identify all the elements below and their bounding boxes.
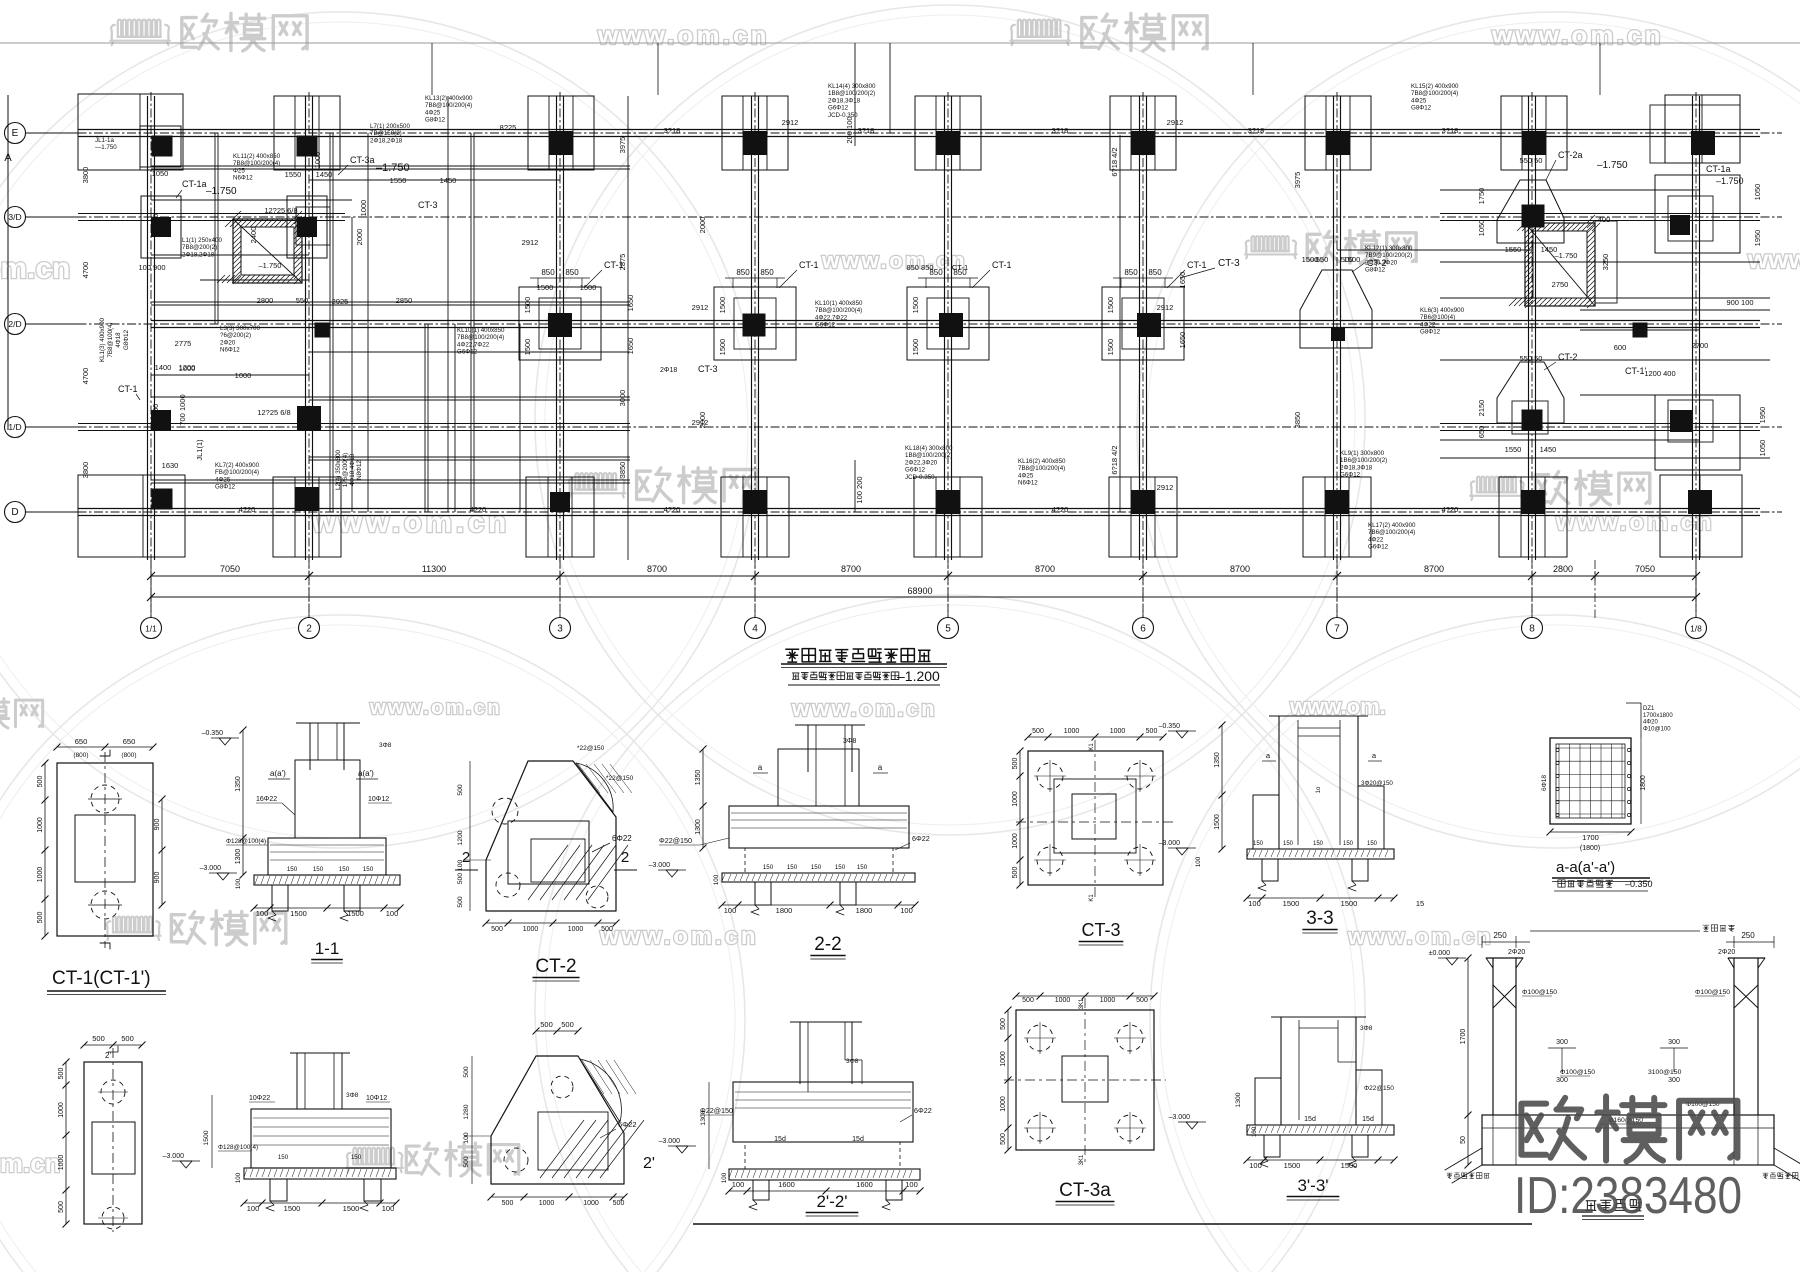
svg-text:3Φ8: 3Φ8 [1360, 1025, 1373, 1032]
svg-text:11300: 11300 [422, 564, 446, 574]
svg-text:1500: 1500 [537, 283, 554, 292]
svg-text:G8Φ12: G8Φ12 [123, 329, 130, 350]
svg-text:1000: 1000 [1064, 728, 1080, 735]
svg-text:3?18: 3?18 [1442, 126, 1459, 135]
svg-text:2Φ22,3Φ20: 2Φ22,3Φ20 [905, 459, 938, 466]
svg-text:1000: 1000 [1100, 997, 1116, 1004]
svg-text:*22@150: *22@150 [606, 775, 634, 782]
svg-text:5: 5 [945, 624, 951, 635]
svg-text:300: 300 [1668, 1039, 1680, 1046]
svg-text:8: 8 [1529, 624, 1535, 635]
svg-text:KL15(2) 400x900: KL15(2) 400x900 [1411, 83, 1459, 90]
svg-text:–1.750: –1.750 [376, 162, 410, 174]
svg-text:CT-1a: CT-1a [1706, 164, 1731, 174]
svg-text:8700: 8700 [1424, 564, 1444, 574]
svg-text:4?20: 4?20 [239, 505, 256, 514]
svg-text:(1800): (1800) [1580, 845, 1600, 852]
svg-text:1550: 1550 [1505, 245, 1522, 254]
svg-text:1600: 1600 [856, 1180, 873, 1189]
svg-text:4: 4 [752, 624, 758, 635]
svg-text:15: 15 [1416, 899, 1424, 908]
svg-text:2800: 2800 [257, 296, 274, 305]
svg-text:KL10(1) 400x850: KL10(1) 400x850 [815, 300, 863, 307]
svg-text:200 100: 200 100 [845, 116, 854, 143]
svg-text:3800: 3800 [81, 167, 90, 184]
svg-text:1500: 1500 [523, 297, 532, 314]
svg-text:–1.750: –1.750 [1597, 160, 1628, 171]
svg-text:2000: 2000 [698, 217, 707, 234]
svg-text:JL1(1): JL1(1) [195, 439, 204, 461]
svg-text:1000: 1000 [359, 200, 368, 217]
svg-text:500: 500 [1022, 997, 1034, 1004]
svg-text:1800: 1800 [776, 906, 793, 915]
svg-text:1350: 1350 [235, 776, 242, 792]
svg-text:a: a [878, 763, 883, 772]
svg-text:550 50: 550 50 [1520, 156, 1543, 165]
svg-text:CT-2a: CT-2a [1558, 150, 1583, 160]
svg-text:1400: 1400 [155, 363, 172, 372]
svg-text:550 50: 550 50 [1520, 354, 1543, 363]
svg-text:2: 2 [621, 849, 629, 866]
svg-text:2912: 2912 [1157, 303, 1174, 312]
svg-text:CT-1(CT-1'): CT-1(CT-1') [52, 968, 151, 989]
svg-text:2875: 2875 [618, 254, 627, 271]
svg-text:1000: 1000 [1012, 833, 1019, 849]
svg-text:4?20: 4?20 [1052, 505, 1069, 514]
svg-text:1000: 1000 [583, 1200, 599, 1207]
svg-text:–3.000: –3.000 [1159, 840, 1181, 847]
svg-text:500: 500 [457, 784, 464, 796]
svg-text:3975: 3975 [1293, 172, 1302, 189]
svg-text:1/D: 1/D [8, 422, 21, 432]
svg-text:Φ25: Φ25 [233, 167, 245, 174]
svg-text:*22@150: *22@150 [577, 745, 605, 752]
svg-text:1750: 1750 [1477, 188, 1486, 205]
svg-text:?6@200(2): ?6@200(2) [220, 332, 251, 339]
svg-text:1700: 1700 [1582, 833, 1599, 842]
svg-text:1500: 1500 [1284, 1161, 1301, 1170]
svg-text:DZ1: DZ1 [1643, 706, 1655, 712]
svg-text:4Φ25: 4Φ25 [1018, 472, 1034, 479]
svg-text:100: 100 [1251, 1126, 1258, 1137]
svg-text:150: 150 [787, 864, 798, 871]
svg-text:2400: 2400 [249, 227, 258, 244]
svg-text:www.om.cn: www.om.cn [369, 697, 502, 719]
svg-text:500: 500 [121, 1034, 134, 1043]
svg-text:3975: 3975 [618, 137, 627, 154]
svg-text:G8Φ12: G8Φ12 [425, 117, 446, 124]
svg-text:7B8@100/200(4): 7B8@100/200(4) [457, 334, 504, 341]
svg-text:1500: 1500 [347, 909, 364, 918]
svg-text:G8Φ12: G8Φ12 [1420, 329, 1441, 336]
svg-text:500: 500 [457, 896, 464, 908]
svg-text:10Φ12: 10Φ12 [366, 1095, 387, 1102]
svg-text:650: 650 [1477, 426, 1486, 439]
svg-text:G8Φ12: G8Φ12 [1411, 105, 1432, 112]
svg-text:1000: 1000 [568, 926, 584, 933]
svg-text:CT-1': CT-1' [1625, 366, 1647, 376]
svg-text:150: 150 [287, 866, 298, 873]
svg-text:2150: 2150 [1477, 400, 1486, 417]
svg-text:2-2: 2-2 [814, 934, 841, 955]
svg-text:CT-2: CT-2 [535, 956, 576, 977]
svg-text:2912: 2912 [1167, 118, 1184, 127]
svg-text:1280: 1280 [463, 1104, 470, 1119]
svg-text:500: 500 [1012, 758, 1019, 770]
svg-text:(800): (800) [121, 752, 136, 759]
svg-text:1600: 1600 [778, 1180, 795, 1189]
svg-text:3: 3 [557, 624, 563, 635]
svg-text:500: 500 [92, 1034, 105, 1043]
svg-text:1B8@100/200(2): 1B8@100/200(2) [828, 90, 875, 97]
svg-text:3800: 3800 [81, 462, 90, 479]
svg-text:7B8@100(4): 7B8@100(4) [107, 322, 114, 357]
svg-text:1550: 1550 [390, 176, 407, 185]
svg-text:7B8@100/200(4): 7B8@100/200(4) [425, 102, 472, 109]
svg-text:1?6@200(4): 1?6@200(4) [342, 453, 349, 488]
svg-text:1500: 1500 [1302, 255, 1319, 264]
svg-text:www.om.cn: www.om.cn [599, 923, 758, 950]
svg-text:1500: 1500 [1341, 1161, 1358, 1170]
svg-text:CT-3: CT-3 [698, 364, 718, 374]
svg-text:2'-2': 2'-2' [816, 1192, 847, 1211]
svg-text:3/D: 3/D [8, 212, 21, 222]
svg-text:—1.750: —1.750 [95, 144, 117, 151]
svg-text:1450: 1450 [1540, 445, 1557, 454]
svg-text:100: 100 [382, 1204, 395, 1213]
svg-text:L1(1) 250x400: L1(1) 250x400 [182, 237, 222, 244]
svg-text:1700: 1700 [1460, 1029, 1467, 1045]
svg-text:100: 100 [732, 1180, 745, 1189]
svg-text:100: 100 [724, 906, 737, 915]
svg-text:500: 500 [1000, 1018, 1007, 1030]
svg-text:1500: 1500 [1283, 899, 1300, 908]
svg-text:650: 650 [75, 737, 88, 746]
svg-text:1350: 1350 [695, 770, 702, 786]
svg-text:1-1: 1-1 [315, 939, 340, 958]
svg-text:7B8@100/200(4): 7B8@100/200(4) [233, 160, 280, 167]
svg-text:10Φ22: 10Φ22 [249, 1095, 270, 1102]
svg-text:KL18(4) 300x800: KL18(4) 300x800 [905, 445, 953, 452]
svg-text:G6Φ12: G6Φ12 [1368, 544, 1389, 551]
svg-text:100: 100 [235, 878, 242, 889]
svg-text:N6Φ12: N6Φ12 [220, 347, 240, 354]
svg-text:4700: 4700 [81, 368, 90, 385]
svg-text:2Φ18,3Φ18: 2Φ18,3Φ18 [828, 97, 861, 104]
svg-text:om.cn: om.cn [0, 1148, 61, 1178]
svg-text:–1.750: –1.750 [1716, 176, 1744, 186]
svg-text:1B6@100/200(2): 1B6@100/200(2) [1340, 457, 1387, 464]
svg-text:–3.000: –3.000 [200, 865, 222, 872]
svg-text:150: 150 [1313, 841, 1324, 847]
svg-text:500: 500 [37, 912, 44, 924]
svg-text:2Φ18,3Φ18: 2Φ18,3Φ18 [1340, 464, 1373, 471]
svg-text:a-a(a'-a'): a-a(a'-a') [1556, 859, 1615, 876]
svg-text:JL1-1a: JL1-1a [95, 137, 114, 144]
svg-text:7B8@200(2): 7B8@200(2) [182, 244, 217, 251]
svg-text:100: 100 [721, 1172, 728, 1183]
svg-text:900 100: 900 100 [1726, 298, 1753, 307]
svg-text:100: 100 [386, 909, 399, 918]
svg-text:–1.750: –1.750 [259, 261, 282, 270]
svg-text:2912: 2912 [782, 118, 799, 127]
svg-text:3000: 3000 [618, 390, 627, 407]
svg-text:3K1: 3K1 [1079, 1154, 1085, 1165]
svg-text:a(a'): a(a') [270, 769, 286, 778]
svg-text:Φ100@150: Φ100@150 [1560, 1069, 1595, 1076]
svg-text:3250: 3250 [1601, 254, 1610, 271]
svg-text:KL14(4) 300x800: KL14(4) 300x800 [828, 83, 876, 90]
svg-text:150: 150 [363, 866, 374, 873]
svg-text:www.om.cn: www.om.cn [821, 248, 967, 273]
svg-text:KL13(2) 400x900: KL13(2) 400x900 [425, 95, 473, 102]
svg-text:4Φ25: 4Φ25 [1411, 97, 1427, 104]
svg-text:3?18: 3?18 [858, 126, 875, 135]
svg-text:1950: 1950 [151, 404, 160, 421]
svg-text:4700: 4700 [81, 262, 90, 279]
svg-text:500: 500 [601, 926, 613, 933]
svg-text:850: 850 [1148, 268, 1162, 277]
svg-text:850 850: 850 850 [906, 263, 933, 272]
svg-text:150: 150 [1283, 841, 1294, 847]
svg-text:15d: 15d [852, 1136, 864, 1143]
svg-text:1950: 1950 [1753, 230, 1762, 247]
svg-text:JCD-0.350: JCD-0.350 [905, 474, 935, 481]
svg-text:900: 900 [154, 819, 161, 831]
svg-text:2912: 2912 [522, 238, 539, 247]
svg-text:KL16(2) 400x850: KL16(2) 400x850 [1018, 458, 1066, 465]
svg-text:1500: 1500 [1214, 814, 1221, 830]
svg-text:a: a [758, 763, 763, 772]
svg-text:7050: 7050 [1635, 564, 1655, 574]
svg-text:L7(1) 200x500: L7(1) 200x500 [370, 123, 410, 130]
svg-text:1500: 1500 [343, 1204, 360, 1213]
svg-text:1200 400: 1200 400 [1644, 369, 1675, 378]
svg-text:6?18 4/2: 6?18 4/2 [1110, 147, 1119, 176]
svg-text:1200: 1200 [179, 363, 196, 372]
svg-text:–3.000: –3.000 [649, 862, 671, 869]
svg-text:1000: 1000 [539, 1200, 555, 1207]
svg-text:2700: 2700 [1692, 341, 1709, 350]
svg-text:3-3: 3-3 [1306, 908, 1333, 929]
svg-text:100 900: 100 900 [138, 263, 165, 272]
svg-text:7B9@100/200(2): 7B9@100/200(2) [1365, 252, 1412, 259]
svg-text:2850: 2850 [396, 296, 413, 305]
svg-text:CT-1: CT-1 [1187, 260, 1207, 270]
svg-text:1300: 1300 [1235, 1092, 1242, 1107]
svg-text:2775: 2775 [175, 339, 192, 348]
svg-text:1500: 1500 [1106, 339, 1115, 356]
svg-text:FB@100/200(4): FB@100/200(4) [215, 469, 259, 476]
svg-text:500: 500 [613, 1200, 625, 1207]
svg-text:850: 850 [541, 268, 555, 277]
svg-text:KL9(1) 300x800: KL9(1) 300x800 [1340, 450, 1385, 457]
svg-text:16Φ22: 16Φ22 [256, 796, 277, 803]
svg-text:1/1: 1/1 [145, 624, 157, 634]
svg-text:www.: www. [1747, 244, 1800, 274]
svg-text:10Φ12: 10Φ12 [368, 796, 389, 803]
svg-text:www.om.cn: www.om.cn [791, 696, 937, 721]
svg-text:CT-2: CT-2 [1558, 352, 1578, 362]
svg-text:150: 150 [1367, 841, 1378, 847]
svg-text:150: 150 [339, 866, 350, 873]
svg-text:1500: 1500 [911, 297, 920, 314]
svg-text:15d: 15d [774, 1136, 786, 1143]
svg-text:500: 500 [502, 1200, 514, 1207]
svg-text:Φ10@100: Φ10@100 [1643, 726, 1671, 732]
svg-text:1650: 1650 [1178, 332, 1187, 349]
svg-text:300: 300 [1668, 1077, 1680, 1084]
svg-text:Φ100@150: Φ100@150 [1522, 989, 1557, 996]
svg-text:1950: 1950 [1758, 407, 1767, 424]
svg-text:KL12(1) 300x800: KL12(1) 300x800 [1365, 245, 1413, 252]
svg-text:1950: 1950 [151, 214, 160, 231]
svg-text:8700: 8700 [1035, 564, 1055, 574]
svg-text:1500: 1500 [911, 339, 920, 356]
svg-text:1050: 1050 [1477, 220, 1486, 237]
svg-text:www.om.cn: www.om.cn [597, 20, 770, 50]
svg-text:500: 500 [463, 1156, 470, 1168]
svg-text:4Φ22,7Φ22: 4Φ22,7Φ22 [815, 314, 848, 321]
svg-text:4Φ20: 4Φ20 [1643, 720, 1658, 726]
svg-text:1050: 1050 [1753, 184, 1762, 201]
svg-text:3100@150: 3100@150 [1648, 1069, 1682, 1076]
svg-text:1700x1800: 1700x1800 [1643, 713, 1673, 719]
svg-text:Φ22@150: Φ22@150 [1364, 1085, 1394, 1092]
svg-text:100: 100 [905, 1180, 918, 1189]
svg-text:L2(4) 350x800: L2(4) 350x800 [335, 449, 342, 489]
svg-text:8700: 8700 [647, 564, 667, 574]
svg-text:700 1000: 700 1000 [178, 394, 187, 425]
svg-text:4Φ22: 4Φ22 [1368, 536, 1384, 543]
svg-text:1000: 1000 [1110, 728, 1126, 735]
svg-text:E: E [12, 128, 19, 139]
svg-text:500: 500 [540, 1020, 553, 1029]
svg-text:7: 7 [1334, 624, 1340, 635]
svg-text:Φ128@100(4): Φ128@100(4) [226, 838, 266, 845]
svg-text:2Φ20,3Φ20: 2Φ20,3Φ20 [1365, 259, 1398, 266]
svg-text:1500: 1500 [284, 1204, 301, 1213]
svg-text:3Φ8: 3Φ8 [346, 1092, 359, 1099]
svg-text:100: 100 [1195, 856, 1202, 867]
svg-text:N6Φ12: N6Φ12 [233, 175, 253, 182]
svg-text:2800: 2800 [1553, 564, 1573, 574]
svg-text:G6Φ12: G6Φ12 [815, 322, 836, 329]
svg-text:500: 500 [58, 1201, 65, 1213]
svg-text:G6Φ12: G6Φ12 [457, 349, 478, 356]
svg-text:K1: K1 [1089, 894, 1095, 902]
svg-text:2/D: 2/D [8, 319, 21, 329]
svg-text:100: 100 [247, 1204, 260, 1213]
svg-text:1500: 1500 [718, 339, 727, 356]
svg-text:1000: 1000 [1012, 791, 1019, 807]
svg-text:4Φ25: 4Φ25 [215, 476, 231, 483]
svg-text:3850: 3850 [1293, 412, 1302, 429]
svg-text:100: 100 [256, 909, 269, 918]
svg-text:CT-3: CT-3 [1081, 920, 1120, 940]
svg-text:1000: 1000 [37, 867, 44, 883]
svg-text:850: 850 [565, 268, 579, 277]
svg-text:4Φ22,7Φ22: 4Φ22,7Φ22 [457, 341, 490, 348]
svg-text:1500: 1500 [203, 1130, 210, 1145]
svg-text:1500: 1500 [1341, 899, 1358, 908]
svg-text:1630: 1630 [162, 461, 179, 470]
svg-text:100: 100 [1248, 899, 1261, 908]
svg-text:3'-3': 3'-3' [1297, 1176, 1328, 1195]
svg-text:–0.350: –0.350 [202, 730, 224, 737]
svg-text:150: 150 [351, 1154, 362, 1161]
svg-text:www.om.cn: www.om.cn [1491, 20, 1664, 50]
svg-text:KL11(2) 400x850: KL11(2) 400x850 [233, 153, 281, 160]
svg-text:1000: 1000 [37, 817, 44, 833]
svg-text:3?18: 3?18 [664, 126, 681, 135]
svg-text:650: 650 [123, 737, 136, 746]
svg-text:8700: 8700 [841, 564, 861, 574]
svg-text:–0.350: –0.350 [1625, 879, 1653, 889]
svg-text:3Φ8: 3Φ8 [846, 1058, 859, 1065]
svg-text:1500: 1500 [290, 909, 307, 918]
svg-text:400: 400 [1598, 215, 1611, 224]
svg-text:KL7(2) 400x900: KL7(2) 400x900 [215, 462, 260, 469]
svg-text:500: 500 [1146, 728, 1158, 735]
svg-text:100: 100 [900, 906, 913, 915]
svg-text:300: 300 [1556, 1077, 1568, 1084]
svg-text:150: 150 [1253, 841, 1264, 847]
svg-text:68900: 68900 [907, 586, 932, 596]
svg-text:7B8@100/200(4): 7B8@100/200(4) [815, 307, 862, 314]
svg-text:100: 100 [463, 1132, 470, 1144]
svg-text:–3.000: –3.000 [163, 1153, 185, 1160]
svg-text:6Φ18: 6Φ18 [1541, 775, 1548, 791]
svg-text:K1: K1 [1089, 743, 1095, 751]
svg-text:N6Φ12: N6Φ12 [1018, 480, 1038, 487]
svg-text:2750: 2750 [1552, 280, 1569, 289]
svg-text:2Φ20: 2Φ20 [1718, 949, 1735, 956]
svg-text:4Φ18,4Φ18: 4Φ18,4Φ18 [349, 453, 356, 486]
svg-text:6Φ22: 6Φ22 [612, 834, 632, 843]
svg-text:150: 150 [835, 864, 846, 871]
svg-text:2000: 2000 [698, 412, 707, 429]
svg-text:1000: 1000 [1055, 997, 1071, 1004]
svg-text:500 100: 500 100 [457, 860, 464, 885]
svg-text:G8Φ12: G8Φ12 [1365, 267, 1386, 274]
svg-text:1B8@100/200(2): 1B8@100/200(2) [905, 452, 952, 459]
svg-text:1500: 1500 [1344, 255, 1361, 264]
svg-text:1050: 1050 [1758, 440, 1767, 457]
svg-text:4?20: 4?20 [1442, 505, 1459, 514]
svg-text:1500: 1500 [523, 339, 532, 356]
svg-text:3Φ20@150: 3Φ20@150 [1361, 780, 1393, 787]
svg-text:G6Φ12: G6Φ12 [1340, 472, 1361, 479]
svg-text:7B@150(2): 7B@150(2) [370, 130, 402, 137]
svg-text:6Φ22: 6Φ22 [912, 834, 930, 843]
svg-text:1350: 1350 [1214, 752, 1221, 768]
svg-text:D: D [11, 507, 18, 518]
svg-text:CT-3: CT-3 [418, 200, 438, 210]
svg-text:850: 850 [1124, 268, 1138, 277]
svg-text:500: 500 [58, 1068, 65, 1080]
svg-text:850: 850 [760, 268, 774, 277]
svg-text:4Φ22: 4Φ22 [1420, 321, 1436, 328]
svg-text:G6Φ12: G6Φ12 [905, 467, 926, 474]
svg-text:CT-1: CT-1 [992, 260, 1012, 270]
svg-text:1o: 1o [1316, 786, 1322, 793]
svg-text:1550: 1550 [1505, 445, 1522, 454]
svg-text:500: 500 [1032, 728, 1044, 735]
svg-text:500: 500 [1136, 997, 1148, 1004]
svg-text:om.cn: om.cn [0, 252, 70, 285]
svg-text:12?25 6/8: 12?25 6/8 [264, 206, 297, 215]
